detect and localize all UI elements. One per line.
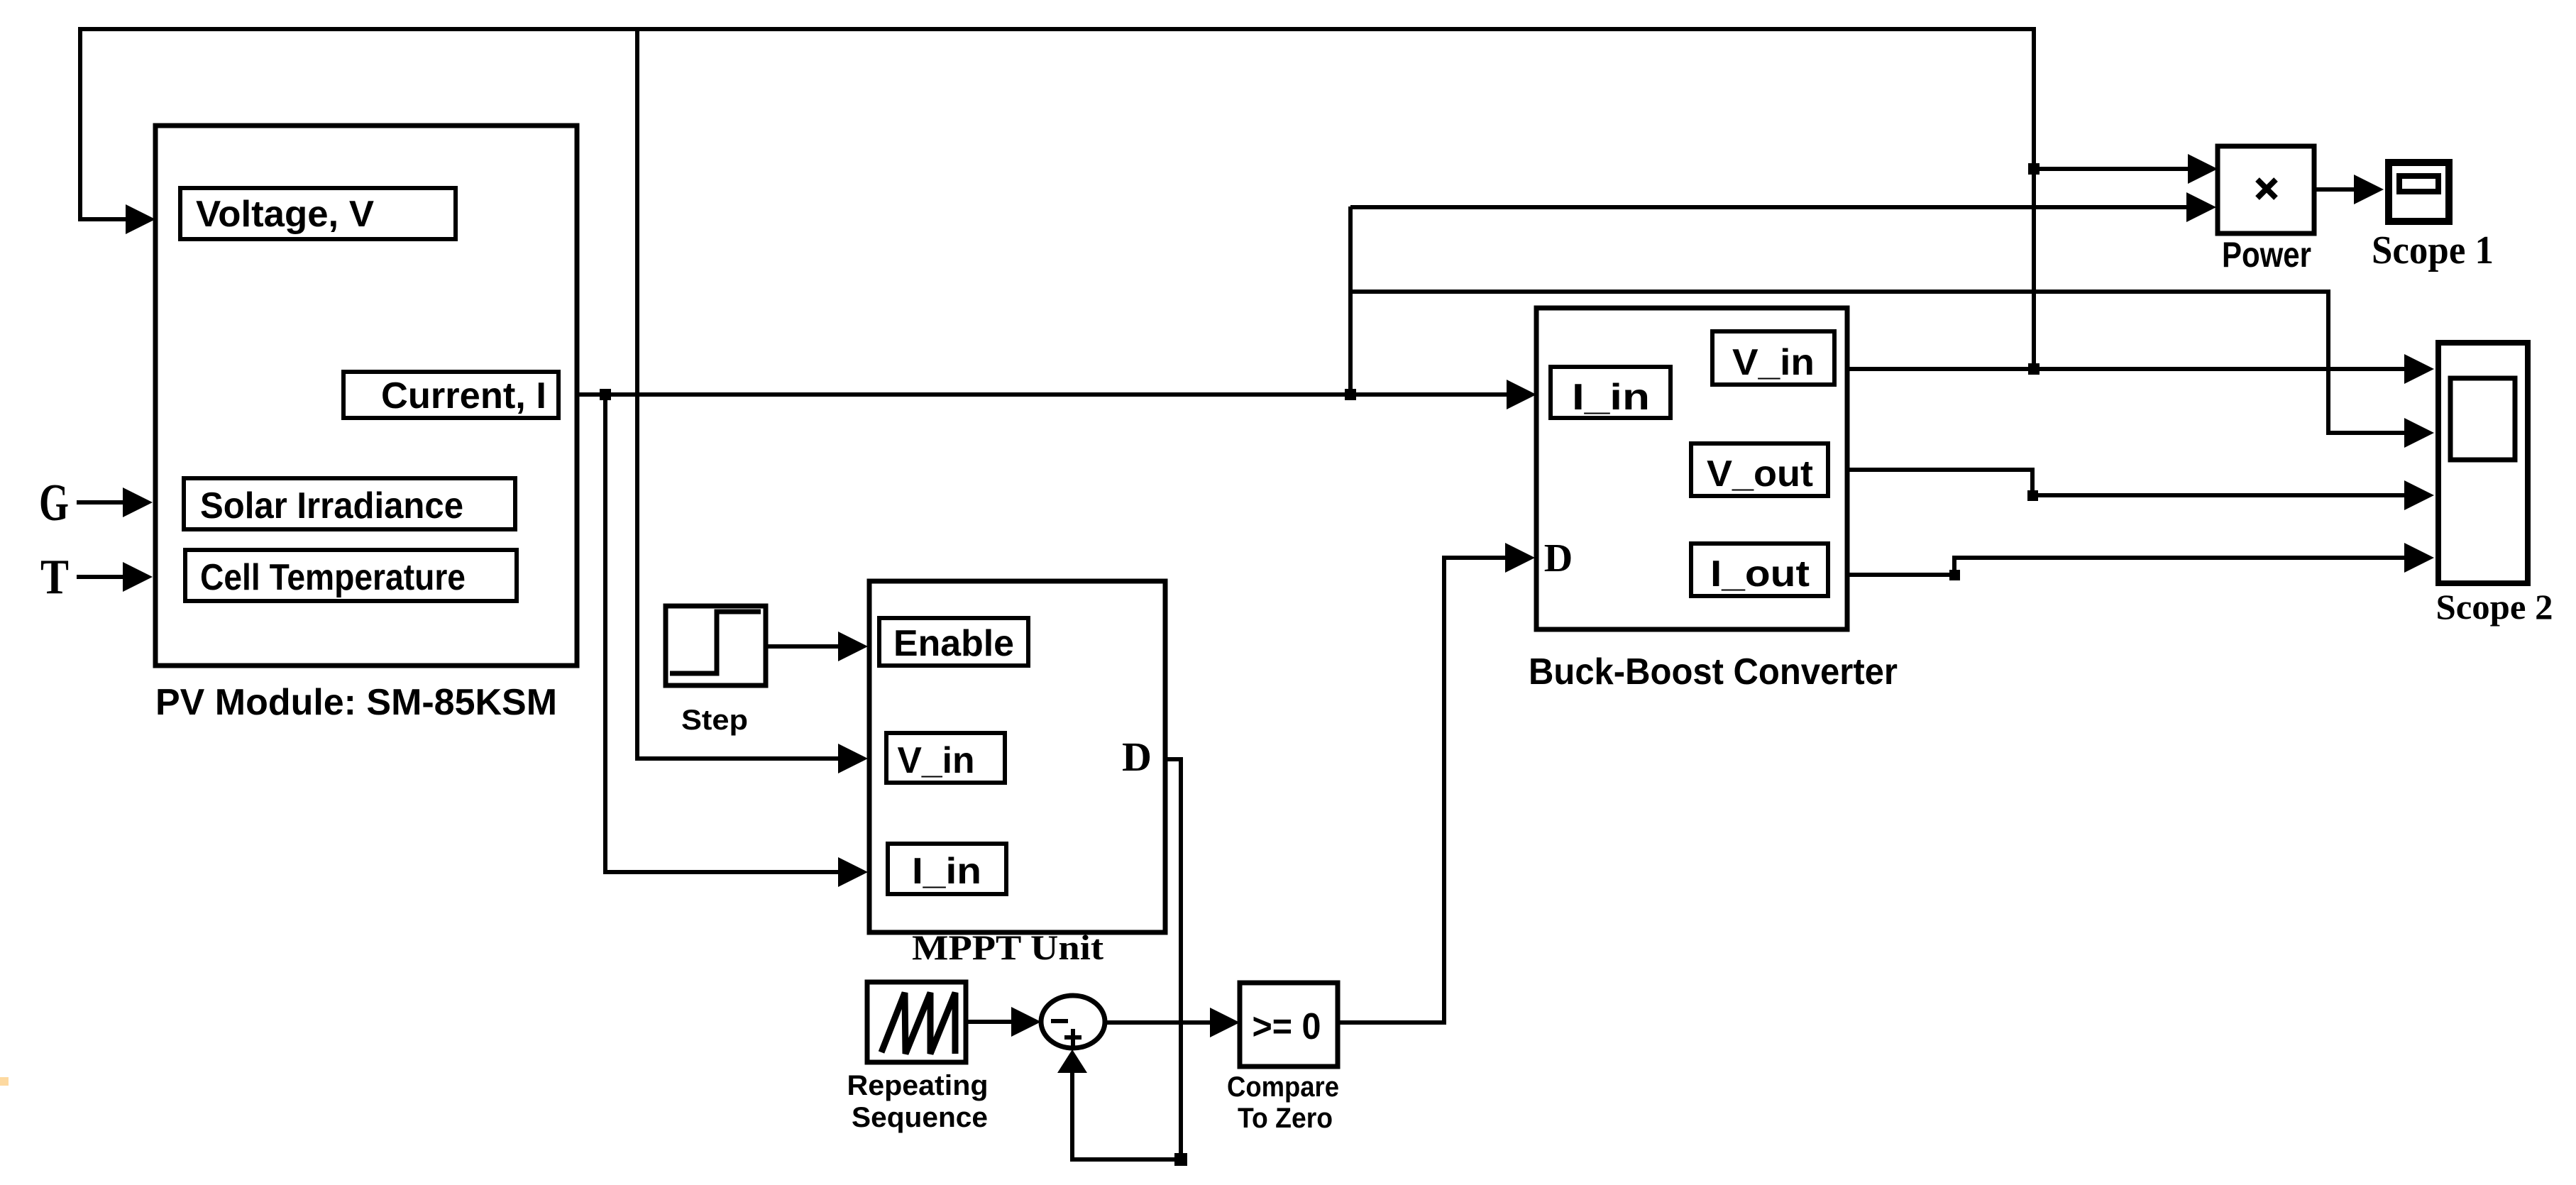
stray mark (0, 1077, 9, 1086)
svg-text:Solar Irradiance: Solar Irradiance (200, 485, 463, 527)
svg-text:Step: Step (681, 705, 748, 736)
wire T input (77, 575, 123, 579)
port label Enable (879, 618, 1028, 666)
wire Buck-Boost V_out to Scope2 input 3 (1847, 470, 2404, 495)
wire Current I main (577, 392, 1507, 397)
svg-text:Power: Power (2222, 235, 2311, 275)
svg-text:I_out: I_out (1710, 553, 1810, 595)
port label Solar Irradiance (184, 478, 515, 529)
node junction on feedback to Power (2028, 163, 2040, 175)
wire G input (77, 500, 123, 505)
icon sawtooth (881, 993, 955, 1054)
block Scope 1 (2389, 162, 2449, 221)
block Power product (2218, 146, 2314, 233)
svg-text:V_in: V_in (1732, 342, 1815, 383)
port label Voltage, V (180, 188, 456, 239)
svg-text:>= 0: >= 0 (1253, 1006, 1321, 1047)
wire Buck-Boost V_in to Scope2 input 1 (1847, 367, 2404, 371)
wire Buck-Boost I_out to Scope2 input 4 (1847, 558, 2404, 575)
icon step waveform (670, 612, 761, 673)
wire Sum to Compare (1105, 1020, 1210, 1025)
wire Current up branch (1348, 206, 1353, 395)
svg-text:PV Module: SM-85KSM: PV Module: SM-85KSM (155, 682, 557, 723)
svg-text:MPPT Unit: MPPT Unit (912, 927, 1103, 967)
wire V feedback down to MPPT V_in (637, 31, 838, 759)
port label Cell Temperature (185, 550, 517, 601)
svg-text:Voltage, V: Voltage, V (196, 194, 374, 235)
sign minus (1051, 1019, 1068, 1023)
svg-text:D: D (1122, 734, 1152, 780)
icon multiply cross (2257, 180, 2276, 198)
block Repeating Sequence source (867, 982, 966, 1062)
svg-text:G: G (39, 474, 69, 532)
block Scope 2 (2438, 343, 2528, 583)
port label V_in BB (1712, 331, 1834, 385)
node junction Current to MPPT I_in (600, 389, 611, 400)
node junction I_out corner (1949, 570, 1960, 580)
wire Power input 2 (1350, 205, 2186, 209)
block MPPT Unit subsystem (869, 581, 1165, 932)
svg-text:Sequence: Sequence (852, 1102, 988, 1133)
wire Power to Scope1 (2314, 187, 2354, 192)
svg-text:Scope 1: Scope 1 (2372, 228, 2494, 272)
svg-text:T: T (40, 550, 69, 605)
port label V_in MPPT (886, 733, 1005, 783)
wire V feedback top loop (80, 29, 2034, 369)
wire Step to Enable (766, 644, 838, 649)
svg-text:Compare: Compare (1227, 1071, 1339, 1103)
node junction D feedback corner (1174, 1153, 1187, 1166)
node junction V_out corner (2027, 490, 2038, 501)
svg-text:V_in: V_in (898, 740, 975, 781)
svg-text:Buck-Boost Converter: Buck-Boost Converter (1529, 651, 1898, 693)
wire Current to Scope2 input 2 (1350, 292, 2404, 433)
svg-text:Scope 2: Scope 2 (2436, 587, 2553, 627)
block PV Module subsystem (155, 126, 577, 666)
wire MPPT D output feedback (1072, 759, 1181, 1159)
svg-text:D: D (1544, 536, 1573, 580)
svg-text:Cell Temperature: Cell Temperature (200, 557, 466, 598)
block Step source (666, 606, 766, 685)
svg-text:To Zero: To Zero (1238, 1103, 1333, 1134)
port label I_out BB (1691, 544, 1828, 596)
wire Current down to MPPT I_in (605, 395, 838, 872)
wire Power input 1 (2034, 167, 2188, 171)
block Buck-Boost Converter subsystem (1536, 308, 1847, 629)
node junction Current rise branch (1345, 389, 1356, 400)
block Compare To Zero (1240, 983, 1338, 1066)
port label I_in BB (1551, 367, 1670, 418)
svg-text:V_out: V_out (1707, 453, 1813, 495)
block Sum (1041, 996, 1105, 1048)
sign plus (1064, 1035, 1081, 1040)
svg-text:Enable: Enable (893, 623, 1014, 664)
svg-text:I_in: I_in (912, 851, 981, 892)
svg-text:Repeating: Repeating (847, 1070, 989, 1101)
wire Compare to Buck-Boost D (1338, 558, 1505, 1023)
wire Repeating Sequence to Sum (966, 1020, 1011, 1024)
node junction on feedback to V_in line (2028, 363, 2040, 375)
svg-text:I_in: I_in (1572, 377, 1650, 418)
port label Current, I (343, 372, 558, 418)
port label I_in MPPT (888, 844, 1006, 894)
port label V_out BB (1691, 443, 1828, 496)
svg-text:Current, I: Current, I (381, 375, 546, 417)
